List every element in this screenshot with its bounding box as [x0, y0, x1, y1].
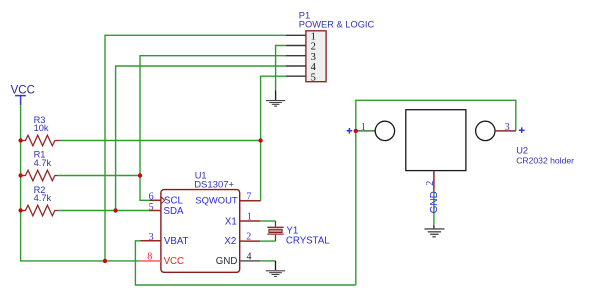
resistor R2 [21, 205, 58, 216]
U2 plus mark right [519, 127, 525, 133]
U1 VBAT pin name [164, 236, 189, 247]
U1 pin 5 SDA stub [150, 210, 161, 212]
svg-text:5: 5 [149, 202, 154, 213]
svg-text:3: 3 [149, 232, 154, 243]
R1 name label [34, 150, 46, 160]
wire battery pin2 to ground [433, 191, 435, 226]
R2 value label [34, 193, 52, 203]
svg-text:4: 4 [247, 252, 252, 263]
ground under U1 GND pin [266, 261, 285, 277]
U2 GND net label (rotated) [429, 191, 440, 213]
Y1 value label [286, 235, 330, 246]
P1 name label [299, 10, 310, 20]
U1 pin 8 VCC stub (highlighted red) [139, 260, 161, 262]
junction dot SQWOUT [258, 138, 262, 142]
R1 value label [34, 158, 52, 168]
wire P1 pin2 to ground [276, 46, 286, 91]
wire X2 to crystal [260, 240, 275, 242]
wire R2 to SDA [58, 210, 150, 212]
U1 SCL pin name [164, 196, 183, 207]
svg-text:2: 2 [425, 181, 436, 186]
svg-text:7: 7 [246, 192, 251, 203]
svg-text:DS1307+: DS1307+ [194, 179, 234, 190]
svg-text:SDA: SDA [164, 206, 184, 217]
junction dot SDA [113, 208, 117, 212]
U2 pin 2 number (rotated) [425, 181, 436, 186]
svg-text:X2: X2 [224, 236, 236, 247]
R3 name label [34, 115, 46, 125]
U1 SDA pin name [164, 206, 184, 217]
svg-text:3: 3 [505, 122, 510, 133]
svg-text:U2: U2 [516, 145, 528, 155]
U2 pin 2 stub [433, 171, 435, 191]
svg-text:1: 1 [247, 212, 252, 223]
U1 pin 3 number [149, 232, 154, 243]
P1 pin number 2 [311, 42, 316, 53]
ground under battery [424, 226, 444, 237]
svg-text:GND: GND [216, 256, 238, 267]
junction dot VCC row [103, 259, 107, 263]
svg-text:X1: X1 [225, 217, 237, 228]
svg-text:VCC: VCC [11, 85, 35, 97]
U1 pin 7 SQWOUT stub [240, 200, 261, 202]
junction dot R1/SCL [138, 173, 142, 177]
U1 pin 1 number [247, 212, 252, 223]
crystal Y1 [267, 221, 283, 241]
U2 plus mark left [347, 128, 353, 134]
svg-text:VCC: VCC [164, 256, 184, 267]
wire VCC rail left [21, 105, 140, 261]
svg-text:5: 5 [311, 72, 316, 83]
svg-text:CR2032 holder: CR2032 holder [516, 155, 574, 165]
U1 SQWOUT pin name [195, 194, 237, 205]
U1 name label [195, 170, 207, 180]
wire R1 output [58, 175, 141, 177]
U2 name label [516, 145, 528, 155]
U2 pin 3 number [505, 122, 510, 133]
U1 pin 3 VBAT stub [141, 240, 161, 242]
U1 value label [194, 179, 234, 190]
U1 pin 7 number [246, 192, 251, 203]
ground under P1 [266, 91, 285, 107]
P1 value label [299, 19, 375, 29]
U1 GND pin name [216, 256, 238, 267]
U1 X1 pin name [225, 217, 237, 228]
junction dot battery plus [354, 129, 358, 133]
svg-text:CRYSTAL: CRYSTAL [286, 235, 330, 246]
U2 pin 3 stub [495, 130, 516, 132]
resistor R1 [21, 170, 58, 181]
U1 pin 1 X1 stub [240, 220, 261, 222]
U1 pin 4 number [247, 252, 252, 263]
U1 pin 5 number [149, 202, 154, 213]
R3 value label [34, 123, 49, 133]
svg-text:2: 2 [246, 232, 251, 243]
svg-text:4.7k: 4.7k [34, 158, 52, 168]
R2 name label [34, 185, 46, 195]
wire P1 pin1 to VCC rail [105, 35, 286, 261]
wire X1 to crystal [260, 220, 275, 222]
wire battery top loop [356, 100, 516, 285]
wire VBAT to battery positive [135, 241, 355, 285]
U2 pin 1 number [361, 122, 366, 133]
junction dot rail R2 [18, 208, 22, 212]
P1 pin number 1 [311, 32, 316, 43]
P1 pin number 3 [311, 52, 316, 63]
wire P1 pin4 to SDA [116, 66, 286, 211]
svg-text:10k: 10k [34, 123, 49, 133]
U1 pin 2 number [246, 232, 251, 243]
IC U1 DS1307+ body [161, 190, 240, 273]
svg-text:POWER & LOGIC: POWER & LOGIC [299, 19, 375, 29]
junction dot rail R3 [18, 138, 22, 142]
P1 pin number 5 [311, 72, 316, 83]
VCC power symbol [11, 85, 35, 106]
U1 SCL clock chevron [161, 197, 164, 204]
wire R3 to SQWOUT node [61, 141, 261, 201]
P1 pin number 4 [311, 62, 317, 73]
svg-text:VBAT: VBAT [164, 236, 189, 247]
svg-text:8: 8 [147, 252, 152, 263]
connector P1 [286, 31, 326, 82]
battery holder U2 [375, 110, 495, 171]
U1 pin 2 X2 stub [240, 240, 261, 242]
wire P1 pin3 to R1/SCL [140, 56, 286, 201]
wire battery pin1 [356, 130, 376, 132]
Y1 name label [286, 226, 298, 237]
U1 pin 6 SCL stub [149, 199, 161, 201]
U1 VCC pin name [164, 256, 184, 267]
wire GND pin to ground [260, 260, 275, 262]
wire P1 pin5 to SQWOUT net [261, 76, 286, 140]
U2 value label [516, 155, 574, 165]
junction dot rail R1 [18, 173, 22, 177]
U1 pin 4 GND stub [240, 260, 261, 262]
svg-text:4.7k: 4.7k [34, 193, 52, 203]
U1 X2 pin name [224, 236, 236, 247]
U1 pin 6 number [149, 192, 154, 203]
svg-text:GND: GND [429, 191, 440, 213]
svg-text:SQWOUT: SQWOUT [195, 194, 237, 205]
svg-text:1: 1 [361, 122, 366, 133]
U1 pin 8 number [147, 252, 152, 263]
resistor R3 [21, 135, 61, 146]
